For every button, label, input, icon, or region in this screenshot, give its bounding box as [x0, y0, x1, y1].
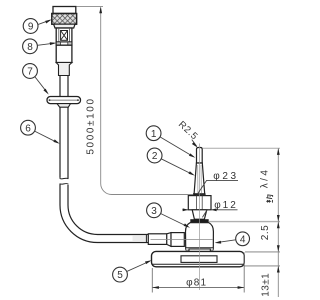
lambda/4 extension line bottom (grey) — [209, 221, 280, 223]
leader 3 — [161, 214, 189, 227]
connector cap (part 9 top) — [53, 7, 76, 14]
base plug ferrule — [148, 234, 167, 245]
leader 2 — [161, 159, 193, 175]
right dimension line vertical — [277, 148, 279, 297]
mount flange on base — [189, 249, 210, 251]
balloon 1 — [146, 126, 161, 141]
cable end cap — [145, 235, 147, 243]
arrow up at 221.6 — [277, 222, 280, 229]
balloon 4 — [236, 232, 250, 246]
svg-text:1: 1 — [151, 129, 157, 140]
cable lower run and bend — [60, 184, 149, 242]
shaft inner edges — [59, 28, 70, 42]
phi12 dimension line — [182, 210, 237, 218]
disc centre line — [49, 99, 79, 101]
strain relief neck — [56, 63, 72, 76]
phi81 extension lines — [152, 253, 244, 293]
svg-text:7: 7 — [27, 67, 33, 78]
whip tip (part 1) — [197, 148, 203, 164]
phi81 dimension line — [152, 287, 244, 289]
balloon 9 — [23, 19, 38, 34]
base plug barrel — [171, 233, 184, 247]
balloon 7 — [23, 64, 38, 79]
antenna vertical centre line — [198, 144, 200, 291]
base slot — [181, 256, 217, 263]
svg-text:λ/4: λ/4 — [260, 168, 271, 189]
coil housing (part 3 upper) — [188, 196, 211, 210]
stem inside coil housing — [197, 196, 203, 210]
balloon 3 — [147, 203, 162, 218]
phi2.3 leader — [198, 180, 238, 193]
base lip line — [152, 263, 244, 265]
cable (part 6) long run with break — [60, 107, 68, 178]
dim 5000 arrow up — [99, 7, 102, 14]
svg-text:5: 5 — [117, 270, 123, 281]
cable break symbol — [60, 177, 69, 180]
R2.5 leader — [192, 140, 197, 147]
disc lower collar — [57, 104, 71, 108]
plug horizontal centre line — [151, 238, 214, 240]
lambda/4 extension line top — [203, 147, 281, 149]
cable upper segment — [60, 76, 68, 97]
leader 8 — [37, 43, 54, 45]
bell housing (part 3 lower) — [186, 223, 214, 251]
balloon 2 — [147, 148, 162, 163]
crimp band (part 8) — [56, 42, 72, 45]
svg-text:2: 2 — [152, 151, 158, 162]
leader 7 — [35, 77, 48, 93]
bell skirt shading — [186, 248, 213, 250]
phi81 arrows — [152, 286, 159, 289]
svg-text:φ81: φ81 — [186, 277, 207, 288]
dim 5000 extension line at cap top — [77, 6, 104, 8]
arrow up at 265.9 — [277, 266, 280, 273]
leader 1 — [160, 137, 194, 157]
neck below coil — [192, 210, 207, 219]
whip foot flange — [194, 194, 206, 196]
base top extension line — [245, 251, 280, 253]
svg-text:13±1: 13±1 — [260, 273, 271, 297]
balloon 5 — [113, 267, 128, 282]
svg-text:8: 8 — [27, 42, 33, 53]
base bottom extension line — [245, 265, 281, 267]
knurl base collar — [54, 24, 75, 28]
svg-text:6: 6 — [25, 123, 31, 134]
balloon 6 — [21, 120, 36, 135]
connector shaft upper — [56, 28, 72, 45]
crimp X box (part 8 upper) — [61, 31, 68, 41]
balloon 8 — [23, 39, 38, 54]
base plug taper — [167, 233, 171, 247]
kanji yaku (approx) hand drawn — [266, 195, 272, 203]
svg-text:φ12: φ12 — [214, 200, 238, 211]
arrow up at 148.3 — [277, 148, 280, 155]
magnet base (part 5) — [152, 251, 245, 266]
leader 4 — [217, 240, 236, 243]
arrow down at 221.6 — [277, 215, 280, 222]
grommet disc (part 7) — [47, 97, 81, 104]
svg-text:2.5: 2.5 — [260, 225, 271, 240]
svg-text:9: 9 — [28, 22, 34, 33]
whip taper (part 2) — [194, 163, 205, 194]
dark collar band — [190, 219, 208, 222]
svg-text:3: 3 — [151, 206, 157, 217]
cable sleeve near base connector — [133, 235, 150, 242]
svg-text:5000±100: 5000±100 — [86, 97, 97, 154]
bell lip line — [186, 247, 214, 249]
leader 5 — [127, 261, 150, 271]
arrow down at 251.9 — [277, 245, 280, 252]
connector knurled nut (part 9) — [52, 14, 77, 25]
leader 6 — [35, 131, 58, 143]
dim 5000 line — [101, 7, 199, 194]
svg-text:4: 4 — [240, 234, 246, 245]
dim 5000 arrow right — [193, 193, 200, 196]
connector body — [56, 45, 72, 62]
leader 9 — [38, 20, 50, 24]
